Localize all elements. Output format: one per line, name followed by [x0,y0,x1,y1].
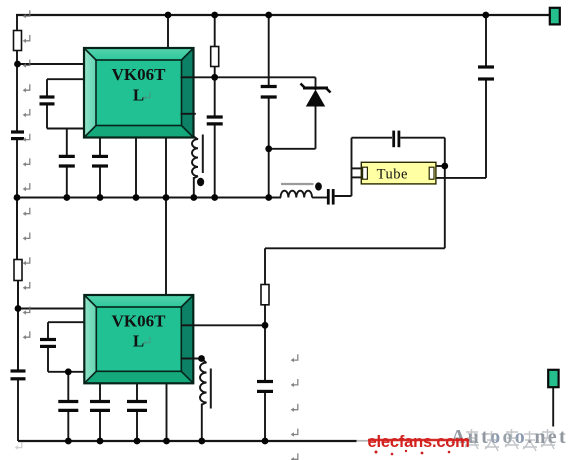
svg-text:L: L [133,86,144,105]
svg-text:VK06T: VK06T [112,312,167,331]
svg-text:L: L [133,332,144,351]
svg-text:elecfans.com: elecfans.com [368,433,470,451]
svg-text:VK06T: VK06T [112,65,167,84]
svg-text:Tube: Tube [377,167,408,183]
